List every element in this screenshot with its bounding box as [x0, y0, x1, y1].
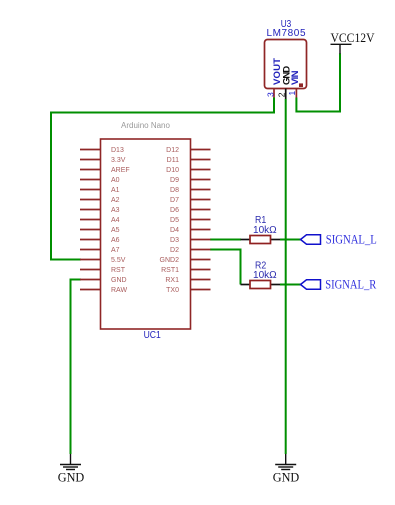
svg-text:GND: GND: [58, 469, 85, 484]
wire net VOUT to 5.5V: [51, 98, 274, 260]
pin 3 VOUT: [273, 89, 275, 98]
svg-text:RAW: RAW: [111, 287, 127, 294]
svg-text:5.5V: 5.5V: [111, 257, 126, 264]
svg-text:D13: D13: [111, 147, 124, 154]
svg-text:GND: GND: [111, 277, 127, 284]
svg-text:GND2: GND2: [160, 257, 180, 264]
wire net GND vertical (LM7805 pin2 to ground): [285, 99, 287, 454]
svg-text:D8: D8: [170, 187, 179, 194]
svg-text:TX0: TX0: [166, 287, 179, 294]
right pin labels: [160, 147, 180, 294]
svg-text:A5: A5: [111, 227, 120, 234]
svg-text:Arduino Nano: Arduino Nano: [121, 121, 170, 130]
svg-text:A6: A6: [111, 237, 120, 244]
svg-text:AREF: AREF: [111, 167, 130, 174]
IC UC1 Arduino Nano: [80, 121, 211, 341]
svg-text:RST1: RST1: [161, 267, 179, 274]
svg-text:D6: D6: [170, 207, 179, 214]
flag SIGNAL_L: [301, 232, 377, 247]
svg-text:D11: D11: [167, 157, 179, 164]
svg-text:1: 1: [287, 91, 297, 96]
svg-text:A1: A1: [111, 187, 120, 194]
wire net SIGNAL_R (D2 to R2 to flag): [210, 250, 241, 285]
svg-text:SIGNAL_R: SIGNAL_R: [325, 277, 376, 292]
svg-text:D10: D10: [166, 167, 179, 174]
svg-text:A3: A3: [111, 207, 120, 214]
pin 2 GND: [285, 89, 287, 100]
svg-text:VCC12V: VCC12V: [331, 30, 376, 45]
svg-text:A2: A2: [111, 197, 120, 204]
svg-text:UC1: UC1: [144, 330, 162, 341]
power symbol VCC12V: [331, 30, 376, 54]
svg-text:D5: D5: [170, 217, 179, 224]
flag SIGNAL_R: [301, 277, 377, 292]
wire net GND left (Arduino GND pin to ground): [71, 280, 82, 455]
ground symbol left: [58, 454, 85, 484]
left pin stubs: [80, 150, 101, 290]
wire net VIN to VCC12V: [296, 54, 340, 112]
svg-text:D7: D7: [170, 197, 179, 204]
resistor R2 10k: [241, 261, 281, 289]
svg-text:D9: D9: [170, 177, 179, 184]
svg-text:A0: A0: [111, 177, 120, 184]
svg-text:SIGNAL_L: SIGNAL_L: [326, 232, 377, 247]
svg-text:D4: D4: [170, 227, 179, 234]
svg-text:LM7805: LM7805: [267, 28, 306, 39]
wire net SIGNAL_L (D3 to R1 to flag): [210, 239, 241, 241]
svg-text:A4: A4: [111, 217, 120, 224]
pin 1 VIN: [295, 89, 297, 98]
svg-text:VIN: VIN: [290, 70, 301, 85]
svg-text:D12: D12: [166, 147, 179, 154]
svg-text:10kΩ: 10kΩ: [253, 225, 277, 236]
left pin labels: [111, 147, 130, 294]
svg-text:2: 2: [276, 92, 286, 97]
resistor R1 10k: [241, 215, 281, 244]
svg-text:3.3V: 3.3V: [111, 157, 126, 164]
svg-text:3: 3: [266, 92, 276, 97]
svg-text:A7: A7: [111, 247, 120, 254]
svg-text:RX1: RX1: [165, 277, 179, 284]
right pin stubs: [191, 150, 211, 290]
svg-text:D2: D2: [170, 247, 179, 254]
regulator U3 LM7805: [265, 19, 307, 99]
svg-text:RST: RST: [111, 267, 126, 274]
svg-text:GND: GND: [273, 469, 300, 484]
ground symbol right: [273, 454, 300, 484]
svg-text:D3: D3: [170, 237, 179, 244]
svg-text:10kΩ: 10kΩ: [253, 270, 277, 281]
